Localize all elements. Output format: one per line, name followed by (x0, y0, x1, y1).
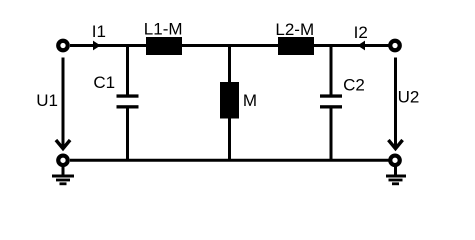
wire top rail middle segment (182, 44, 279, 47)
terminal port1 bottom (58, 156, 68, 166)
ground right (386, 167, 406, 184)
wire top rail left segment (70, 44, 147, 47)
svg-text:M: M (243, 91, 257, 110)
svg-text:L2-M: L2-M (275, 20, 314, 39)
wire C2 upper stub (330, 46, 333, 96)
svg-text:U1: U1 (36, 91, 58, 110)
svg-text:I1: I1 (92, 22, 106, 41)
wire bottom rail (70, 159, 389, 162)
current arrow I1 (93, 41, 101, 51)
svg-text:C2: C2 (343, 75, 365, 94)
wire C1 lower stub (126, 108, 129, 160)
svg-text:C1: C1 (93, 73, 115, 92)
terminal port2 bottom (390, 156, 400, 166)
inductor L2-M (278, 37, 314, 55)
wire M upper stub (228, 46, 231, 85)
ground left (52, 167, 74, 184)
wire left port stub (62, 58, 65, 148)
inductor L1-M (146, 37, 182, 55)
capacitor C1 (117, 94, 139, 97)
inductor M (220, 82, 239, 119)
svg-text:U2: U2 (398, 87, 420, 106)
wire C2 lower stub (330, 108, 333, 160)
current arrow I2 (358, 41, 366, 51)
wire top rail right segment (314, 44, 389, 47)
wire M lower stub (228, 117, 231, 160)
wire C1 upper stub (126, 46, 129, 96)
capacitor C2 (320, 94, 342, 97)
terminal port1 top (58, 41, 68, 51)
svg-text:L1-M: L1-M (144, 20, 183, 39)
svg-text:I2: I2 (354, 23, 368, 42)
terminal port2 top (390, 41, 400, 51)
voltage arrow U1 (56, 140, 70, 149)
wire right port stub (394, 58, 397, 148)
voltage arrow U2 (388, 140, 402, 149)
